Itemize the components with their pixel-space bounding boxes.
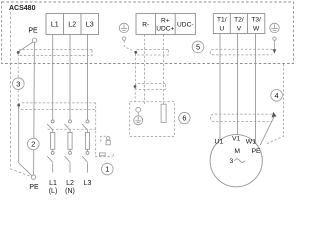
- svg-text:(N): (N): [65, 188, 75, 195]
- svg-text:L3: L3: [84, 180, 92, 187]
- svg-text:PE: PE: [251, 148, 261, 155]
- svg-text:L3: L3: [86, 22, 94, 29]
- svg-text:3: 3: [16, 79, 20, 88]
- svg-text:R-: R-: [142, 21, 149, 28]
- svg-text:T2/: T2/: [234, 17, 244, 24]
- svg-text:V: V: [237, 26, 242, 33]
- svg-text:UDC+: UDC+: [156, 26, 174, 33]
- svg-text:L2: L2: [68, 22, 76, 29]
- svg-text:3: 3: [230, 158, 234, 165]
- svg-text:2: 2: [31, 140, 35, 149]
- svg-text:PE: PE: [29, 184, 39, 191]
- svg-text:1: 1: [105, 165, 109, 174]
- svg-text:W1: W1: [246, 139, 256, 146]
- svg-text:W: W: [253, 26, 260, 33]
- svg-text:V1: V1: [232, 136, 241, 143]
- svg-text:ACS480: ACS480: [9, 5, 36, 12]
- svg-text:PE: PE: [28, 28, 38, 35]
- svg-text:5: 5: [196, 43, 200, 52]
- svg-text:U1: U1: [214, 139, 223, 146]
- svg-text:6: 6: [182, 114, 186, 123]
- svg-text:4: 4: [275, 91, 279, 100]
- svg-text:U: U: [219, 26, 224, 33]
- svg-text:R+: R+: [161, 17, 170, 24]
- svg-text:UDC-: UDC-: [177, 21, 193, 28]
- svg-text:(L): (L): [49, 188, 58, 195]
- svg-text:T1/: T1/: [217, 17, 227, 24]
- svg-text:L1: L1: [51, 22, 59, 29]
- svg-text:L2: L2: [66, 180, 74, 187]
- svg-text:M: M: [234, 148, 240, 155]
- svg-text:L1: L1: [49, 180, 57, 187]
- svg-text:T3/: T3/: [251, 17, 261, 24]
